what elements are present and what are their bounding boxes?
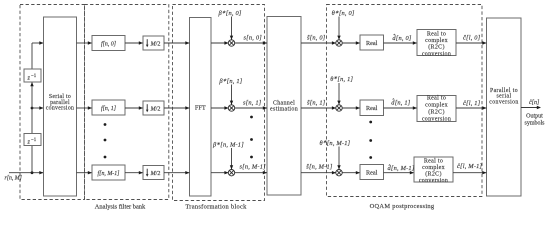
svg-text:M/2: M/2 (150, 106, 161, 113)
svg-text:s[n, 0]: s[n, 0] (244, 35, 263, 42)
svg-text:(R2C): (R2C) (428, 109, 445, 116)
svg-text:(R2C): (R2C) (425, 171, 442, 178)
svg-text:Real to: Real to (427, 96, 446, 102)
svg-text:ĉ[l, M-1]: ĉ[l, M-1] (457, 163, 483, 170)
svg-text:−1: −1 (31, 74, 37, 79)
svg-text:FFT: FFT (195, 104, 206, 111)
svg-text:d̂[n, 0]: d̂[n, 0] (392, 34, 411, 41)
svg-text:conversion: conversion (422, 117, 451, 123)
svg-text:Analysis filter bank: Analysis filter bank (95, 204, 146, 211)
svg-text:Transformation block: Transformation block (185, 204, 247, 211)
svg-text:Real to: Real to (424, 159, 443, 165)
svg-text:Real: Real (366, 170, 378, 177)
svg-text:complex: complex (425, 103, 448, 109)
svg-text:Output: Output (526, 114, 543, 120)
svg-text:estimation: estimation (270, 107, 298, 113)
svg-text:(R2C): (R2C) (428, 44, 445, 51)
svg-text:r[n, M]: r[n, M] (5, 176, 22, 182)
svg-text:conversion: conversion (419, 178, 448, 184)
svg-text:complex: complex (425, 38, 448, 44)
svg-text:conversion: conversion (489, 99, 518, 105)
svg-text:ŝ[n, M-1]: ŝ[n, M-1] (306, 164, 333, 171)
svg-text:f[n, M-1]: f[n, M-1] (98, 170, 121, 177)
svg-text:β∗[n, 0]: β∗[n, 0] (218, 10, 242, 18)
svg-text:f[n, 1]: f[n, 1] (101, 105, 117, 112)
svg-text:symbols: symbols (524, 120, 545, 126)
svg-text:ŝ[n, 1]: ŝ[n, 1] (307, 100, 326, 107)
svg-text:Channel: Channel (273, 101, 295, 107)
svg-text:Real: Real (366, 105, 378, 112)
svg-text:d̂[n, M-1]: d̂[n, M-1] (388, 165, 415, 172)
svg-text:OQAM postprocessing: OQAM postprocessing (370, 203, 435, 210)
svg-text:conversion: conversion (422, 51, 451, 57)
svg-text:−1: −1 (31, 138, 37, 143)
svg-text:β∗[n, 1]: β∗[n, 1] (218, 77, 242, 85)
svg-text:Real to: Real to (427, 32, 446, 38)
svg-text:d̂[n, 1]: d̂[n, 1] (391, 99, 410, 106)
svg-text:ĉ[n]: ĉ[n] (529, 100, 540, 106)
svg-text:Real: Real (366, 40, 378, 47)
svg-text:ĉ[l, 1]: ĉ[l, 1] (463, 100, 481, 107)
svg-text:f[n, 0]: f[n, 0] (101, 41, 117, 48)
svg-text:complex: complex (422, 165, 445, 171)
svg-text:conversion: conversion (46, 106, 74, 112)
svg-text:s[n, M-1]: s[n, M-1] (240, 164, 267, 171)
svg-text:z: z (27, 139, 31, 146)
svg-text:z: z (27, 75, 31, 82)
svg-text:M/2: M/2 (150, 41, 161, 48)
svg-text:M/2: M/2 (150, 170, 161, 177)
svg-text:s[n, 1]: s[n, 1] (243, 100, 262, 107)
svg-text:ĉ[l, 0]: ĉ[l, 0] (463, 35, 481, 42)
svg-text:ŝ[n, 0]: ŝ[n, 0] (307, 35, 326, 42)
